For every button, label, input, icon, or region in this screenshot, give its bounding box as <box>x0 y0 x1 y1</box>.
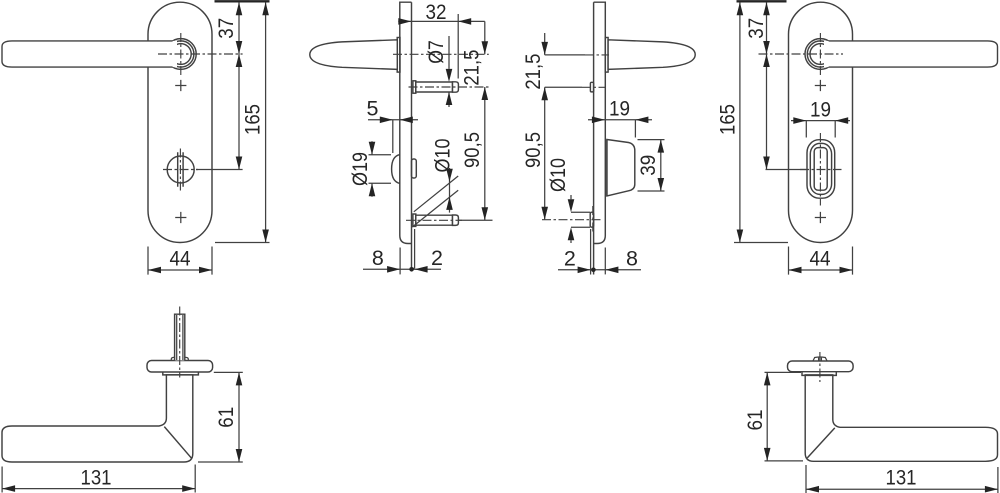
dimension 131 extension lines <box>2 465 195 493</box>
dimension 32 line <box>398 20 485 22</box>
miter line <box>164 427 191 459</box>
dimension 44 line <box>789 269 853 271</box>
svg-text:Ø10: Ø10 <box>431 138 455 172</box>
dimension 19 line <box>791 120 850 122</box>
follower block <box>412 159 417 178</box>
dimension 19 extension <box>634 120 636 138</box>
svg-text:131: 131 <box>81 465 112 489</box>
key circle <box>167 156 194 183</box>
svg-text:Ø7: Ø7 <box>424 40 448 64</box>
plate strip <box>594 2 606 274</box>
lower screw axis <box>406 219 462 221</box>
lower screw centerline vertical <box>592 206 594 234</box>
svg-text:21,5: 21,5 <box>521 54 545 90</box>
spindle base wedge left <box>171 357 174 360</box>
dimension 131 extension lines <box>806 465 998 493</box>
thumbturn grip bar <box>814 148 827 191</box>
spindle inner lines <box>177 315 183 360</box>
miter line <box>807 428 835 458</box>
top extension line <box>737 0 787 2</box>
plate outline <box>789 2 853 242</box>
spindle <box>175 314 185 360</box>
oblique extension upper <box>414 176 458 212</box>
svg-text:Ø19: Ø19 <box>348 152 372 186</box>
lever capsule profile <box>310 40 398 70</box>
svg-text:37: 37 <box>744 18 768 39</box>
screw cap <box>813 357 827 361</box>
dimension 61 line <box>238 372 240 462</box>
dimension 39 line <box>660 140 662 191</box>
lower screw shaft <box>416 215 453 225</box>
screw cross vertical <box>819 352 821 382</box>
thumbturn centerline vertical <box>819 133 821 206</box>
bottom extension line <box>734 242 788 244</box>
upper screw head <box>413 81 416 93</box>
handle outline <box>805 375 997 462</box>
rosette flange <box>163 372 199 375</box>
dimension 2 and 8 line <box>558 269 641 271</box>
dimension 61 extension lines <box>198 372 243 462</box>
thumbturn knob profile <box>607 140 635 197</box>
dimension Ø7 <box>448 36 450 107</box>
dimension 39 extension lines <box>638 140 665 191</box>
svg-text:19: 19 <box>609 97 630 121</box>
svg-text:61: 61 <box>743 410 767 431</box>
oblique extension lower <box>412 190 458 227</box>
dimension 5 extension <box>392 120 394 153</box>
dimension 44 extension lines <box>148 247 212 275</box>
extension lower screw axis <box>542 219 602 221</box>
handle centerline horizontal <box>759 53 844 55</box>
bottom extension line <box>215 242 270 244</box>
handle centerline vertical <box>180 33 182 76</box>
rosette circles <box>805 39 836 70</box>
dimension 44 extension lines <box>789 247 853 275</box>
lower screw head <box>413 214 416 226</box>
svg-text:165: 165 <box>240 104 264 135</box>
dimension 21,5 line <box>544 33 546 55</box>
handle centerline horizontal <box>158 53 243 55</box>
dimension 8 and 2 line <box>363 268 441 270</box>
rosette side strip <box>605 38 608 73</box>
key centerline horizontal <box>163 169 198 171</box>
upper screw axis <box>409 86 489 88</box>
extension line plate face <box>399 248 401 275</box>
knob base line <box>606 140 608 197</box>
svg-text:44: 44 <box>810 247 831 271</box>
dimension 19 line <box>588 119 652 121</box>
thumbturn oval outer <box>807 140 835 199</box>
lower screw end-on <box>590 212 593 227</box>
dimension 165 line <box>265 2 267 242</box>
dimension Ø19 extension lines <box>369 155 392 183</box>
dimension 37 line <box>766 2 768 54</box>
dimension 37 line <box>238 2 240 54</box>
extension line key level <box>196 169 243 171</box>
dimension 61 extension lines <box>765 372 804 461</box>
bottom lip <box>412 229 415 268</box>
dimension Ø19 arrows <box>371 141 373 197</box>
rosette capsule <box>788 361 854 372</box>
lever bar fill <box>824 41 998 67</box>
svg-text:Ø10: Ø10 <box>546 158 570 192</box>
upper screw end cap <box>453 82 459 92</box>
extension screw axis solid <box>458 219 492 221</box>
thumbturn centerline horizontal <box>800 169 842 171</box>
spindle centerline <box>179 307 181 378</box>
svg-text:8: 8 <box>372 246 384 270</box>
dimension 165 line <box>739 2 741 242</box>
thumbturn oval inner <box>810 143 831 194</box>
dimension 44 line <box>148 269 212 271</box>
svg-text:90,5: 90,5 <box>460 132 484 168</box>
dimension 21,5 line <box>484 21 486 54</box>
upper screw end-on <box>590 82 593 92</box>
svg-text:21,5: 21,5 <box>460 50 484 86</box>
extension line turn level <box>766 169 807 171</box>
rosette flange <box>802 372 836 376</box>
plate strip <box>400 2 412 268</box>
plus mark upper <box>175 80 186 91</box>
lower screw end cap <box>453 215 459 225</box>
svg-text:32: 32 <box>426 0 447 24</box>
dimension 90,5 line <box>484 87 486 220</box>
svg-text:8: 8 <box>626 247 638 271</box>
rosette side strip <box>397 38 400 73</box>
dimension 5 line <box>368 119 418 121</box>
svg-text:61: 61 <box>214 407 238 428</box>
svg-text:131: 131 <box>886 466 917 490</box>
dimension 32 extension right <box>457 14 459 79</box>
handle centerline vertical <box>819 33 821 76</box>
svg-text:37: 37 <box>214 18 238 39</box>
plate outline <box>148 2 212 242</box>
handle outline <box>2 375 193 462</box>
svg-text:44: 44 <box>170 247 191 271</box>
common boundary dot <box>591 268 596 273</box>
dimension Ø10 arrows <box>570 195 572 243</box>
top extension line <box>215 0 270 2</box>
extension screw axis <box>545 86 582 88</box>
svg-text:90,5: 90,5 <box>521 132 545 168</box>
dimension 131 line <box>806 488 998 490</box>
dimension handle-to-key line <box>238 54 240 170</box>
plus mark upper <box>815 80 826 91</box>
dimension 131 line <box>2 488 195 490</box>
svg-text:19: 19 <box>810 97 831 121</box>
dimension 61 line <box>766 372 768 461</box>
upper screw shaft <box>416 82 453 92</box>
lever bar outline <box>2 41 173 67</box>
dimension 90,5 line <box>544 87 546 219</box>
svg-text:2: 2 <box>431 246 443 270</box>
key slot <box>178 152 183 186</box>
extension line plate face <box>604 248 606 275</box>
svg-text:165: 165 <box>715 104 739 135</box>
spindle base wedge right <box>185 357 189 360</box>
catch bump <box>392 155 400 184</box>
svg-text:2: 2 <box>564 247 576 271</box>
bottom lip <box>590 229 592 275</box>
svg-text:39: 39 <box>636 155 660 176</box>
key centerline vertical <box>179 149 181 191</box>
svg-text:5: 5 <box>367 97 379 121</box>
common boundary dot <box>409 267 414 272</box>
rosette circles <box>165 39 196 70</box>
handle axis centerline <box>393 53 489 55</box>
rosette capsule <box>147 361 213 373</box>
dimension handle-to-turn line <box>766 54 768 170</box>
lever bar fill <box>2 41 177 67</box>
lever bar outline <box>829 41 998 67</box>
extension handle axis <box>545 54 585 56</box>
dimension Ø10 boundary lines <box>571 212 590 227</box>
plus mark lower <box>815 212 826 223</box>
dimension 19 extensions <box>806 121 835 138</box>
lever capsule profile <box>608 40 695 70</box>
plus mark lower <box>175 212 186 223</box>
dimension Ø10 <box>449 168 451 213</box>
